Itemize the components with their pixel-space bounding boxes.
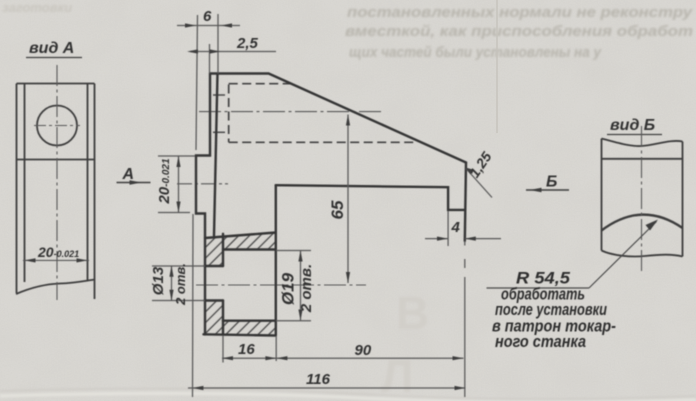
- svg-text:Б: Б: [546, 174, 557, 191]
- svg-text:щих частей были установлены на: щих частей были установлены на у: [349, 44, 602, 61]
- svg-text:вид Б: вид Б: [610, 117, 655, 134]
- svg-text:116: 116: [306, 371, 331, 388]
- svg-text:постановленных нормали не реко: постановленных нормали не реконстру: [347, 4, 693, 21]
- svg-text:А: А: [122, 166, 135, 183]
- svg-text:2 отв.: 2 отв.: [173, 263, 188, 306]
- svg-text:вид А: вид А: [29, 40, 74, 57]
- svg-text:6: 6: [203, 8, 212, 25]
- svg-text:заготовки: заготовки: [2, 0, 72, 15]
- svg-text:2 отв.: 2 отв.: [298, 264, 315, 313]
- svg-text:90: 90: [355, 342, 372, 359]
- svg-text:вместкой, как приспособления о: вместкой, как приспособления обработ: [345, 23, 693, 40]
- svg-text:16: 16: [238, 341, 255, 358]
- svg-text:В: В: [396, 287, 429, 339]
- svg-text:ного станка: ного станка: [495, 333, 586, 351]
- svg-text:Ø13: Ø13: [150, 266, 167, 295]
- svg-text:4: 4: [451, 219, 461, 236]
- svg-text:Ø19: Ø19: [279, 272, 298, 305]
- svg-text:после установки: после установки: [495, 301, 607, 319]
- svg-text:65: 65: [328, 200, 347, 219]
- svg-text:2,5: 2,5: [236, 35, 259, 52]
